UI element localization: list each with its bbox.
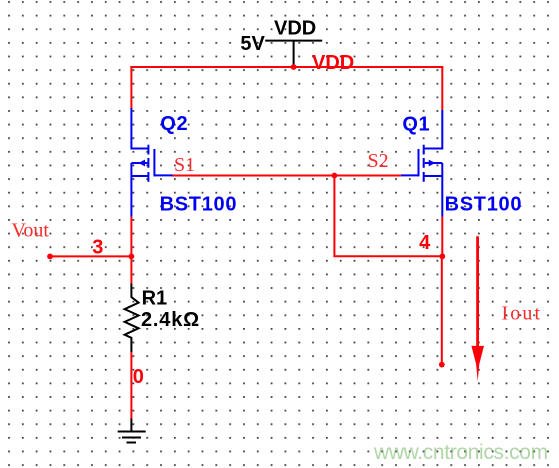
wire Q2 drain red segment bbox=[130, 66, 132, 109]
svg-text:5V: 5V bbox=[240, 33, 265, 55]
svg-text:VDD: VDD bbox=[312, 52, 354, 74]
wire Q1 source down to node 4 bbox=[441, 217, 443, 257]
transistor Q2 bbox=[131, 108, 172, 217]
transistor Q1 bbox=[401, 110, 442, 217]
wire R1 to ground bbox=[130, 352, 132, 419]
ground bbox=[118, 419, 146, 443]
terminal dot Vout bbox=[47, 254, 53, 260]
junction node on gate net bbox=[332, 173, 338, 179]
svg-text:S2: S2 bbox=[368, 150, 389, 172]
svg-text:R1: R1 bbox=[142, 288, 168, 310]
junction node 3 bbox=[129, 254, 135, 260]
current arrow Iout bbox=[471, 236, 484, 381]
wire node 4 stub down bbox=[441, 256, 443, 364]
wire node 3 to Vout terminal bbox=[50, 255, 131, 257]
wire Q2 source down to node 3 bbox=[130, 217, 132, 258]
svg-text:www.cntronics.com: www.cntronics.com bbox=[373, 441, 548, 464]
wire VDD top rail bbox=[130, 66, 443, 68]
svg-text:0: 0 bbox=[133, 366, 144, 388]
svg-text:BST100: BST100 bbox=[445, 193, 523, 215]
svg-text:Q2: Q2 bbox=[160, 113, 188, 135]
wire S1-S2 gate net bbox=[172, 175, 401, 177]
svg-text:Q1: Q1 bbox=[402, 114, 430, 136]
svg-text:Iout: Iout bbox=[502, 303, 543, 325]
wire node 3 to R1 bbox=[130, 255, 132, 283]
wire Q1 drain red segment bbox=[441, 66, 443, 110]
svg-text:S1: S1 bbox=[174, 154, 195, 176]
svg-text:VDD: VDD bbox=[274, 17, 316, 39]
wire gate net down to node 4 bbox=[334, 175, 442, 257]
power symbol VDD 5V bbox=[265, 41, 322, 66]
svg-text:BST100: BST100 bbox=[160, 194, 238, 216]
svg-text:4: 4 bbox=[419, 232, 431, 254]
svg-text:2.4kΩ: 2.4kΩ bbox=[141, 309, 200, 331]
junction node 4 bbox=[439, 253, 445, 259]
resistor R1 bbox=[125, 284, 139, 353]
junction node on VDD rail bbox=[291, 64, 297, 70]
svg-text:Vout: Vout bbox=[12, 220, 50, 242]
terminal dot below node 4 bbox=[439, 362, 445, 368]
svg-text:3: 3 bbox=[92, 237, 103, 259]
